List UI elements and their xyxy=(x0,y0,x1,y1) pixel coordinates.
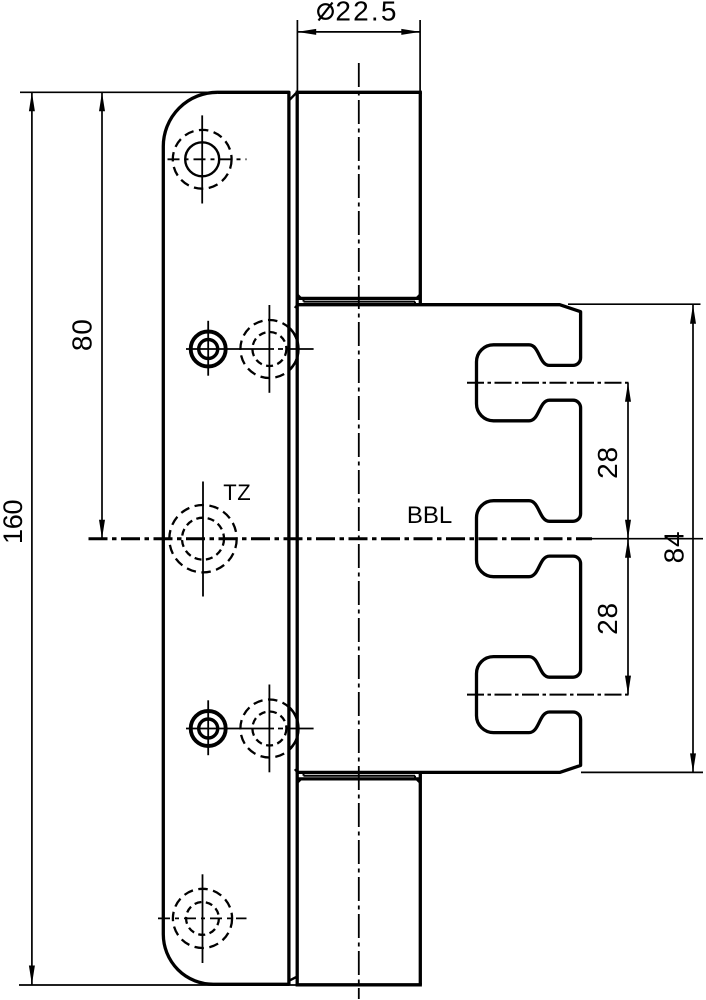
diameter symbol of dimension text xyxy=(318,3,333,21)
dimension text 160 xyxy=(0,500,28,544)
bottom knuckle top right chamfer xyxy=(417,779,420,782)
dimension text 84 xyxy=(659,531,690,564)
upper bearing hole outer ring xyxy=(191,332,226,367)
leaf bottom left chamfer tick xyxy=(295,769,298,772)
hinge plate outline with rounded left corners xyxy=(163,92,289,984)
barrel bottom edge xyxy=(296,983,422,986)
top knuckle bottom edge xyxy=(297,297,421,300)
barrel vertical center line xyxy=(358,63,360,999)
label BBL xyxy=(407,502,452,529)
svg-text:80: 80 xyxy=(67,318,98,351)
slot 1 center line xyxy=(467,382,632,384)
dimension text 80 xyxy=(67,318,98,351)
dimension text 28 lower xyxy=(592,602,623,635)
top knuckle bottom left chamfer xyxy=(298,295,301,298)
top extension line for 160 and 80 dimensions xyxy=(20,91,214,93)
top joint parting line xyxy=(304,298,416,304)
barrel top edge xyxy=(296,91,422,94)
lower companion vertical center line xyxy=(268,685,270,773)
upper companion inner dashed circle xyxy=(252,332,286,366)
upper companion vertical center line xyxy=(268,305,270,393)
upper bearing hole vertical center line xyxy=(207,321,209,376)
upper bearing hole inner circle xyxy=(199,340,218,359)
top screw hole dashed circle xyxy=(173,130,232,189)
bottom notch tick between plate and barrel xyxy=(290,977,297,980)
top screw hole vertical center line xyxy=(201,115,203,203)
main horizontal center line BBL (thick chain) xyxy=(89,537,593,540)
dimension line dia 22.5 xyxy=(297,29,420,35)
slot 3 center line xyxy=(467,694,632,696)
barrel right edge upper segment xyxy=(419,92,422,304)
lower pin arc visible in gap xyxy=(289,707,299,750)
bottom knuckle top left chamfer xyxy=(298,779,301,782)
bottom hole horizontal center line xyxy=(158,917,247,919)
upper bearing horizontal center line xyxy=(186,348,314,350)
bottom extension line for 160 dimension xyxy=(19,984,297,986)
top screw hole horizontal center line xyxy=(168,158,247,160)
bottom hole inner dashed circle xyxy=(186,902,219,935)
upper companion outer dashed circle xyxy=(240,320,298,378)
svg-text:84: 84 xyxy=(659,531,690,564)
dimension line 160 xyxy=(29,92,35,984)
svg-text:22.5: 22.5 xyxy=(335,0,398,27)
lower companion inner dashed circle xyxy=(252,712,286,746)
bottom extension line for 84 dimension xyxy=(581,771,703,773)
central TZ hole inner dashed circle xyxy=(182,518,224,560)
dimension text 28 upper xyxy=(592,446,623,479)
lower bearing hole vertical center line xyxy=(207,700,209,755)
central TZ hole outer dashed circle xyxy=(169,505,236,572)
top knuckle bottom right chamfer xyxy=(417,295,420,298)
svg-text:BBL: BBL xyxy=(407,502,452,529)
barrel right edge lower segment xyxy=(419,772,422,984)
thin extension of BBL center line to the right xyxy=(592,538,703,540)
dimension text 22.5 xyxy=(335,0,398,27)
lower bearing horizontal center line xyxy=(186,728,314,730)
central TZ hole vertical center line xyxy=(202,482,204,597)
extension line right of barrel for dia 22.5 dimension xyxy=(419,20,421,92)
svg-text:28: 28 xyxy=(592,602,623,635)
bottom knuckle top edge xyxy=(297,777,421,780)
bottom joint parting line xyxy=(304,772,416,779)
lower companion outer dashed circle xyxy=(240,700,298,758)
right hinge leaf outline with three slots xyxy=(297,305,581,773)
svg-text:28: 28 xyxy=(592,446,623,479)
extension line left of barrel for dia 22.5 dimension xyxy=(296,20,298,92)
dimension line 28 lower xyxy=(625,539,631,695)
dimension line 28 upper xyxy=(625,383,631,539)
barrel left edge xyxy=(296,92,299,985)
leaf top left chamfer tick xyxy=(295,305,298,308)
lower bearing hole inner circle xyxy=(199,719,218,738)
bottom hole vertical center line xyxy=(202,874,204,963)
lower bearing hole outer ring xyxy=(191,711,226,746)
svg-text:TZ: TZ xyxy=(223,480,251,505)
upper pin arc visible in gap xyxy=(289,327,299,370)
top screw hole solid circle xyxy=(185,142,219,176)
label TZ xyxy=(223,480,251,505)
top notch tick between plate and barrel xyxy=(290,93,297,100)
dimension line 80 xyxy=(99,92,105,538)
svg-text:160: 160 xyxy=(0,500,28,544)
dimension line 84 xyxy=(690,305,696,773)
bottom hole outer dashed circle xyxy=(173,889,232,948)
top extension line for 84 dimension xyxy=(568,303,701,305)
